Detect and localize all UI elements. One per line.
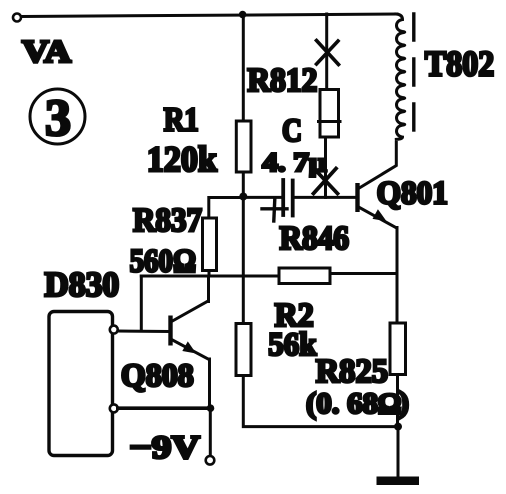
capacitor C plates [281, 180, 285, 215]
wire Q801 emitter down [396, 228, 399, 322]
resistor R1 [236, 121, 251, 172]
svg-text:120k: 120k [147, 139, 217, 179]
svg-text:R837: R837 [133, 202, 202, 239]
wire R825 bottom lead [396, 376, 399, 427]
wire capacitor to Q801 base [294, 196, 355, 199]
svg-text:): ) [399, 386, 409, 419]
wire R812 bottom lead [324, 139, 327, 198]
svg-text:−9V: −9V [129, 430, 200, 466]
wire horizontal net R837-bottom to R846 [141, 275, 277, 278]
svg-text:(0. 68: (0. 68 [306, 387, 378, 420]
svg-text:R812: R812 [247, 62, 317, 99]
svg-text:3: 3 [45, 90, 71, 147]
wire top rail [22, 14, 398, 17]
wire R1 top lead [242, 14, 245, 120]
D830 module box [49, 312, 113, 456]
svg-text:VA: VA [22, 33, 71, 69]
svg-text:Q808: Q808 [121, 358, 194, 394]
wire R812 top lead [325, 14, 328, 88]
node ground junction [394, 423, 402, 431]
resistor R846 [279, 268, 330, 284]
svg-text:R825: R825 [316, 353, 388, 390]
terminal D830 upper [110, 326, 118, 334]
svg-text:D830: D830 [45, 265, 120, 304]
wire junction A to R837 top [209, 198, 244, 217]
node junction A [239, 193, 247, 201]
wire coil bottom to Q801 collector [359, 143, 397, 189]
terminal -9V [206, 456, 215, 465]
wire Q808 emitter down [208, 359, 211, 408]
wire Q808 collector up [207, 276, 210, 302]
X mark lower [314, 169, 338, 194]
svg-text:56k: 56k [268, 327, 317, 363]
svg-text:R1: R1 [164, 102, 199, 139]
svg-text:560Ω: 560Ω [130, 244, 197, 280]
svg-text:R846: R846 [280, 220, 350, 257]
resistor R2 [236, 324, 251, 376]
capacitor C wire from junction A [243, 196, 281, 199]
terminal VA input [13, 14, 21, 22]
svg-text:T802: T802 [425, 44, 494, 84]
wire R2 bottom to ground rail [243, 377, 398, 427]
node circled 3 [30, 89, 85, 147]
resistor R825 [390, 323, 406, 375]
transformer T802 primary coil [396, 14, 405, 139]
ground [377, 427, 420, 485]
svg-text:Q801: Q801 [377, 176, 448, 212]
wire corner down to Q808 base net [140, 276, 143, 331]
transistor Q808 [171, 301, 210, 360]
X mark upper [317, 41, 339, 65]
wire D830 upper to Q808 base [118, 330, 169, 334]
transformer T802 core dashed [412, 14, 415, 133]
wire D830 lower to -9V node [118, 406, 211, 410]
wire R846 right lead [332, 272, 398, 275]
wire R2 top lead [242, 198, 245, 323]
terminal D830 lower [110, 404, 118, 412]
svg-text:C: C [282, 113, 302, 149]
wire down to -9V terminal [209, 408, 212, 456]
resistor R837 [203, 218, 217, 271]
node junction on top rail [239, 11, 247, 19]
resistor R812 [320, 90, 339, 138]
node junction -9V [207, 404, 215, 412]
transistor Q801 [358, 185, 396, 227]
capacitor polarity plus [262, 207, 287, 210]
wire R837 bottom lead [208, 272, 211, 276]
wire R1 bottom lead [242, 174, 245, 197]
